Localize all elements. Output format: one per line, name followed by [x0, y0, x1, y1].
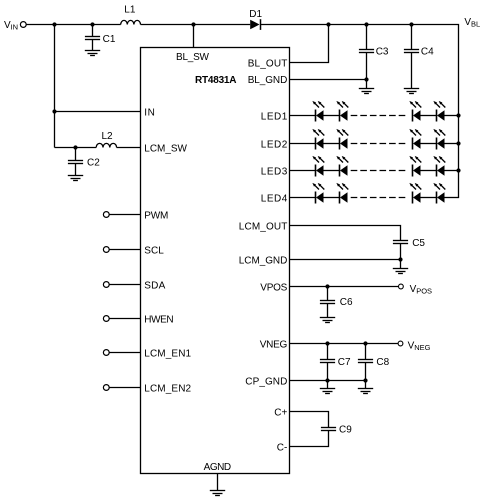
svg-text:D1: D1 — [249, 9, 262, 20]
svg-text:C-: C- — [277, 443, 288, 454]
svg-text:C8: C8 — [376, 357, 389, 368]
svg-text:LCM_SW: LCM_SW — [144, 144, 187, 155]
svg-text:RT4831A: RT4831A — [195, 75, 237, 86]
svg-text:POS: POS — [416, 286, 432, 295]
svg-text:LED1: LED1 — [261, 112, 288, 123]
node SCL input terminal — [103, 247, 109, 253]
wire C2 bottom lead — [75, 164, 77, 176]
junction CP_GND / C8 — [363, 378, 367, 382]
wire PWM pin — [109, 214, 140, 216]
wire LED4 row segment — [421, 197, 437, 199]
svg-text:C+: C+ — [274, 408, 287, 419]
wire CP_GND pin — [290, 380, 366, 382]
svg-text:LED2: LED2 — [261, 140, 288, 151]
svg-text:LCM_GND: LCM_GND — [239, 256, 288, 267]
wire SDA pin — [109, 284, 140, 286]
junction VBL rail / LED2 row — [456, 141, 460, 145]
wire LED4 row segment — [324, 197, 340, 199]
wire VNEG pin to terminal — [290, 343, 399, 345]
wire LED2 row: pin to first LED — [290, 143, 316, 145]
LED D3d — [433, 156, 445, 177]
svg-text:C6: C6 — [340, 297, 353, 308]
capacitor C3 plates — [359, 50, 374, 53]
junction LCM_GND / C5 — [398, 257, 402, 261]
wire D1 to VBL corner and down LED rail — [261, 25, 459, 198]
capacitor C5 plates — [393, 241, 408, 244]
wire LED1 row to VBL rail — [445, 115, 460, 117]
capacitor C9 plates — [321, 428, 336, 431]
svg-text:C5: C5 — [412, 238, 425, 249]
svg-text:LED3: LED3 — [261, 167, 288, 178]
svg-text:LED4: LED4 — [261, 194, 288, 205]
wire LED3 row segment — [324, 170, 340, 172]
wire C1 top lead — [92, 25, 94, 37]
junction LCM_SW / C2 — [73, 145, 77, 149]
wire BL_GND ground lead — [366, 80, 368, 89]
wire C7 top lead — [327, 344, 329, 360]
wire C1 bottom lead — [92, 40, 94, 51]
svg-text:BL_GND: BL_GND — [248, 75, 288, 86]
wire C4 top lead — [411, 25, 413, 50]
ground (C7) — [320, 389, 335, 394]
wire C7 bottom lead — [327, 363, 329, 381]
wire LED1 row: pin to first LED — [290, 115, 316, 117]
svg-text:L1: L1 — [124, 5, 136, 16]
wire LED3 row to VBL rail — [445, 170, 460, 172]
junction VNEG / C8 — [363, 341, 367, 345]
wire C9 to C- pin — [290, 431, 329, 447]
wire VIN branch down to LCM_SW level — [54, 25, 56, 148]
junction VIN rail / IN branch — [52, 22, 56, 26]
wire LED3 row: pin to first LED — [290, 170, 316, 172]
svg-text:C3: C3 — [376, 46, 389, 57]
svg-text:AGND: AGND — [204, 462, 232, 473]
svg-text:CP_GND: CP_GND — [245, 377, 287, 388]
svg-text:C1: C1 — [103, 34, 116, 45]
svg-text:C2: C2 — [87, 158, 100, 169]
junction VBL rail / LED3 row — [456, 168, 460, 172]
wire SCL pin — [109, 249, 140, 251]
op-amp U1 RT4831A IC body — [141, 48, 290, 474]
wire BL_GND pin to C3 ground — [290, 79, 367, 81]
junction VBL rail / C4 — [409, 22, 413, 26]
ground (C4) — [404, 89, 419, 94]
node PWM input terminal — [103, 212, 109, 218]
wire LED4 row to VBL rail — [445, 197, 460, 199]
wire C2 top lead — [75, 148, 77, 161]
LED D2b — [336, 129, 348, 150]
capacitor C6 plates — [320, 301, 335, 304]
wire to IN pin — [55, 111, 141, 113]
wire C8 bottom lead — [365, 363, 367, 381]
LED D2d — [433, 129, 445, 150]
wire LED4 row: pin to first LED — [290, 197, 316, 199]
wire HWEN pin — [109, 318, 140, 320]
svg-text:IN: IN — [144, 108, 155, 119]
svg-text:LCM_EN2: LCM_EN2 — [144, 384, 191, 395]
wire C3 top lead — [366, 25, 368, 50]
capacitor C4 plates — [404, 50, 419, 53]
svg-text:VPOS: VPOS — [260, 283, 287, 294]
wire C8 top lead — [365, 344, 367, 360]
wire LED2 row dashed continuation — [351, 143, 408, 145]
LED D3b — [336, 156, 348, 177]
LED D3a — [312, 156, 324, 177]
svg-text:C7: C7 — [338, 357, 351, 368]
svg-text:PWM: PWM — [144, 211, 168, 222]
ground (C1) — [85, 51, 100, 56]
ground (AGND) — [210, 491, 225, 496]
LED D2a — [312, 129, 324, 150]
junction CP_GND / C7 — [325, 378, 329, 382]
capacitor C8 plates — [358, 360, 373, 363]
capacitor C1 plates — [85, 37, 100, 40]
wire LED3 row segment — [421, 170, 437, 172]
svg-text:SDA: SDA — [144, 281, 165, 292]
wire C+ pin to C9 — [290, 412, 329, 428]
node LCM_EN1 input terminal — [103, 350, 109, 356]
wire C8 ground lead — [365, 381, 367, 389]
svg-text:VNEG: VNEG — [260, 340, 288, 351]
LED D4c — [409, 183, 421, 204]
wire L1 to D1 — [141, 24, 251, 26]
inductor L1 — [121, 20, 141, 24]
LED D1d — [433, 101, 445, 122]
wire LCM_SW left segment — [55, 147, 97, 149]
LED D3c — [409, 156, 421, 177]
junction VNEG / C7 — [325, 341, 329, 345]
svg-text:SCL: SCL — [144, 246, 164, 257]
ground (C6) — [320, 318, 335, 323]
LED D1c — [409, 101, 421, 122]
LED D2c — [409, 129, 421, 150]
wire AGND pin lead — [217, 474, 219, 491]
node VIN terminal — [20, 22, 26, 28]
LED D4d — [433, 183, 445, 204]
inductor L2 — [96, 143, 116, 147]
svg-text:BL_OUT: BL_OUT — [248, 59, 288, 70]
wire VPOS pin to terminal — [290, 286, 399, 288]
LED D1b — [336, 101, 348, 122]
wire C7 ground lead — [327, 381, 329, 389]
wire VIN to L1 — [26, 24, 121, 26]
node SDA input terminal — [103, 282, 109, 288]
svg-text:C4: C4 — [421, 46, 434, 57]
svg-text:HWEN: HWEN — [144, 315, 173, 326]
wire LCM_EN1 pin — [109, 352, 140, 354]
wire LCM_GND ground lead — [400, 260, 402, 269]
svg-text:BL: BL — [471, 20, 480, 29]
wire C3 bottom lead — [366, 53, 368, 80]
junction VBL rail / C3 — [364, 22, 368, 26]
svg-text:LCM_EN1: LCM_EN1 — [144, 349, 191, 360]
LED D1a — [312, 101, 324, 122]
wire LCM_GND pin — [290, 259, 401, 261]
svg-text:L2: L2 — [102, 131, 114, 142]
ground (BL_GND) — [359, 89, 374, 94]
diode D1 — [250, 19, 260, 30]
capacitor C7 plates — [320, 360, 335, 363]
svg-text:IN: IN — [11, 22, 19, 31]
wire BL_OUT pin up to VBL rail — [290, 25, 329, 63]
wire LED4 row dashed continuation — [351, 197, 408, 199]
junction VBL rail / LED1 row — [456, 113, 460, 117]
wire L2 to LCM_SW pin — [117, 147, 141, 149]
wire LED2 row to VBL rail — [445, 143, 460, 145]
svg-text:NEG: NEG — [414, 343, 430, 352]
wire LCM_EN2 pin — [109, 387, 140, 389]
wire LED1 row segment — [421, 115, 437, 117]
wire LED1 row segment — [324, 115, 340, 117]
LED D4a — [312, 183, 324, 204]
svg-text:C9: C9 — [339, 425, 352, 436]
junction VIN rail / C1 — [90, 22, 94, 26]
wire C6 top lead — [327, 287, 329, 301]
svg-text:BL_SW: BL_SW — [176, 52, 210, 63]
node HWEN input terminal — [103, 316, 109, 322]
junction IN branch — [52, 109, 56, 113]
wire LCM_OUT pin to C5 — [290, 226, 401, 241]
wire C6 bottom lead — [327, 304, 329, 318]
wire LED3 row dashed continuation — [351, 170, 408, 172]
ground (LCM_GND) — [393, 269, 408, 274]
junction VBL rail / BL_OUT — [326, 22, 330, 26]
wire C5 bottom lead — [400, 244, 402, 260]
junction BL_GND / C3 — [364, 77, 368, 81]
capacitor C2 plates — [68, 161, 83, 164]
node VNEG terminal — [398, 341, 403, 346]
wire LED2 row segment — [421, 143, 437, 145]
node VPOS terminal — [399, 284, 404, 289]
wire BL_SW pin drop — [193, 25, 195, 48]
ground (C2) — [68, 176, 83, 181]
node LCM_EN2 input terminal — [103, 385, 109, 391]
wire LED1 row dashed continuation — [351, 115, 408, 117]
wire C4 bottom lead — [411, 53, 413, 89]
junction VPOS / C6 — [325, 284, 329, 288]
junction VIN rail / BL_SW — [191, 22, 195, 26]
ground (C8) — [358, 389, 373, 394]
LED D4b — [336, 183, 348, 204]
wire LED2 row segment — [324, 143, 340, 145]
svg-text:LCM_OUT: LCM_OUT — [239, 222, 288, 233]
